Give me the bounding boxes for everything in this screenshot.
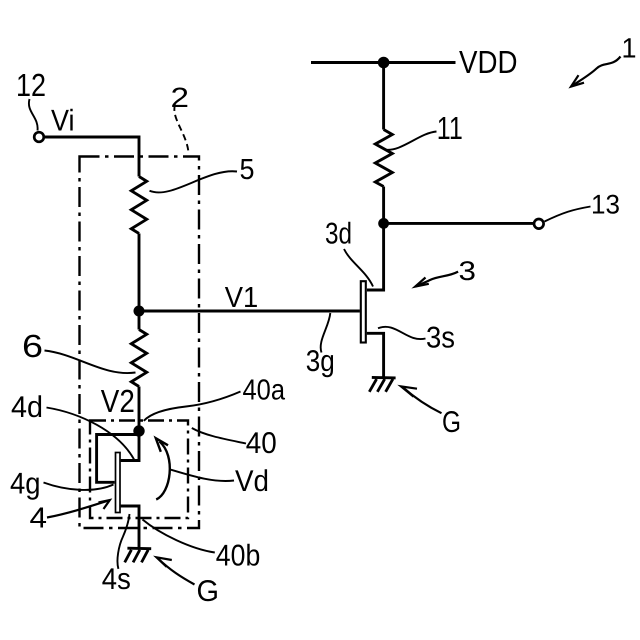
- svg-text:V2: V2: [101, 383, 135, 419]
- svg-text:4s: 4s: [102, 563, 131, 596]
- svg-text:Vd: Vd: [235, 465, 269, 498]
- svg-text:G: G: [442, 406, 461, 439]
- svg-text:4: 4: [30, 503, 48, 535]
- svg-text:5: 5: [240, 154, 255, 186]
- svg-text:40a: 40a: [243, 375, 286, 407]
- svg-text:40b: 40b: [216, 540, 260, 573]
- svg-text:3s: 3s: [426, 322, 455, 355]
- svg-text:13: 13: [591, 190, 620, 220]
- svg-text:V1: V1: [225, 282, 258, 314]
- svg-text:6: 6: [22, 328, 43, 364]
- svg-text:G: G: [197, 575, 220, 608]
- svg-text:1: 1: [622, 33, 637, 64]
- svg-text:3d: 3d: [325, 218, 352, 251]
- svg-text:2: 2: [171, 82, 190, 113]
- svg-text:Vi: Vi: [51, 104, 75, 137]
- svg-text:3g: 3g: [306, 345, 335, 378]
- svg-text:4d: 4d: [11, 391, 43, 424]
- svg-text:3: 3: [459, 256, 477, 286]
- svg-text:11: 11: [437, 110, 463, 146]
- svg-text:4g: 4g: [10, 468, 41, 501]
- svg-text:VDD: VDD: [459, 44, 518, 80]
- svg-text:12: 12: [16, 67, 46, 103]
- svg-text:40: 40: [246, 427, 277, 460]
